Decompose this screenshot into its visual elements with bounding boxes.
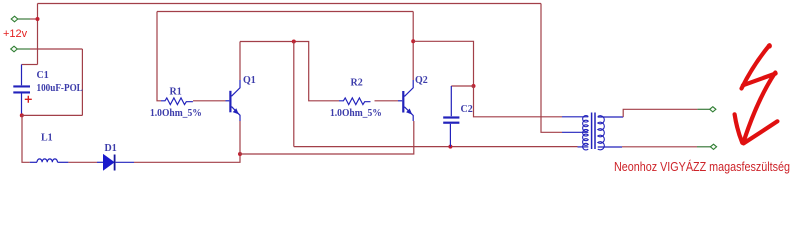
- wire C2 jog: [451, 85, 473, 87]
- junction dot Q2 collector: [411, 39, 415, 43]
- wire vertical from top rail to C1 jog: [37, 4, 39, 65]
- wire C1 bottom rail: [22, 114, 83, 116]
- junction dot C1 bottom: [20, 113, 24, 117]
- svg-text:100uF-POL: 100uF-POL: [37, 83, 84, 94]
- wire Q2 collector vertical: [412, 12, 414, 81]
- junction dot C2 bottom: [448, 145, 452, 149]
- lightning bolt stroke 3: [743, 73, 775, 144]
- junction dot C2 top: [472, 84, 476, 88]
- svg-text:1.0Ohm_5%: 1.0Ohm_5%: [330, 108, 382, 119]
- wire jog to C1 top: [22, 64, 38, 66]
- wire vertical x=22 down to L1: [22, 115, 30, 162]
- svg-text:L1: L1: [41, 133, 53, 144]
- C1 plus polarity mark: [25, 96, 32, 103]
- wire port P1 to junction: [30, 18, 38, 20]
- svg-text:R2: R2: [351, 78, 363, 89]
- junction dot at +12v rail: [36, 17, 40, 21]
- inductor L1: [30, 159, 69, 162]
- capacitor C1: [13, 65, 30, 116]
- lightning arrow right barb: [744, 121, 778, 143]
- svg-text:C2: C2: [461, 104, 473, 115]
- wire C2 node to transformer top lead: [474, 86, 563, 117]
- resistor R1: [157, 12, 226, 105]
- diode D1: [97, 155, 134, 171]
- svg-text:R1: R1: [170, 87, 182, 98]
- resistor R2: [339, 98, 398, 105]
- wire cross-coupling rail R1 top: [157, 11, 413, 13]
- lightning arrow left barb: [735, 114, 743, 143]
- wire Q2 collector rail right: [413, 41, 473, 86]
- wire Q1 collector up: [239, 42, 241, 81]
- transformer T1: [562, 113, 623, 150]
- svg-text:Q2: Q2: [415, 75, 428, 86]
- port P2 GND diamond: [11, 46, 30, 52]
- wire Q1 emitter vertical: [239, 121, 241, 154]
- wire Q1 collector rail to R2 feed: [240, 42, 339, 101]
- svg-text:C1: C1: [37, 70, 49, 81]
- wire vertical x=82: [81, 49, 83, 115]
- port OUT1 diamond: [697, 107, 716, 112]
- port OUT2 diamond: [697, 144, 717, 149]
- wire bottom rail to transformer: [294, 146, 578, 148]
- port P1 +12v diamond: [11, 16, 30, 22]
- svg-text:Q1: Q1: [243, 75, 256, 86]
- wire top +12v rail: [38, 3, 542, 5]
- wire L1 to D1: [68, 161, 97, 163]
- svg-text:D1: D1: [105, 143, 117, 154]
- wire Q1 collector down to transformer rail: [293, 42, 295, 147]
- junction dot emitter Q1: [238, 152, 242, 156]
- wire emitter rail to Q2: [240, 121, 414, 154]
- svg-text:+12v: +12v: [3, 28, 28, 40]
- wire port P2 to right: [30, 48, 82, 50]
- wire D1 to emitter corner: [134, 154, 240, 162]
- capacitor C2: [443, 86, 459, 147]
- lightning bolt stroke 1: [742, 43, 772, 88]
- lightning bolt stroke 2: [743, 74, 776, 86]
- wire secondary bottom: [622, 146, 697, 148]
- transistor Q1: [226, 80, 241, 121]
- svg-text:Neonhoz VIGYÁZZ magasfeszültsé: Neonhoz VIGYÁZZ magasfeszültség: [614, 159, 790, 174]
- junction dot Q1 collector rail: [292, 40, 296, 44]
- svg-text:1.0Ohm_5%: 1.0Ohm_5%: [150, 108, 202, 119]
- wire top rail down to center tap: [541, 4, 562, 133]
- wire secondary top step: [623, 109, 697, 117]
- transistor Q2: [398, 80, 413, 121]
